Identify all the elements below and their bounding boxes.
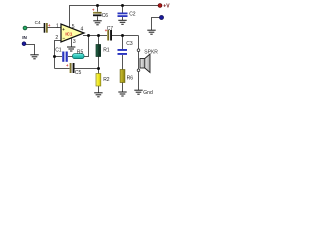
svg-text:C2: C2 bbox=[129, 11, 136, 17]
svg-text:IC1: IC1 bbox=[65, 31, 73, 36]
svg-text:R5: R5 bbox=[77, 49, 84, 55]
svg-text:3: 3 bbox=[73, 39, 76, 45]
svg-text:C1: C1 bbox=[55, 48, 62, 54]
svg-text:R2: R2 bbox=[103, 77, 110, 83]
svg-text:C4: C4 bbox=[35, 20, 41, 25]
svg-text:SPKR: SPKR bbox=[144, 50, 158, 56]
svg-text:1: 1 bbox=[56, 24, 59, 30]
svg-text:+V: +V bbox=[163, 4, 170, 10]
svg-text:4: 4 bbox=[81, 27, 84, 33]
svg-text:C6: C6 bbox=[102, 13, 109, 19]
svg-text:C7: C7 bbox=[107, 26, 114, 32]
svg-text:5: 5 bbox=[72, 24, 75, 30]
svg-text:C5: C5 bbox=[75, 70, 82, 76]
svg-text:R6: R6 bbox=[127, 76, 134, 82]
svg-text:R1: R1 bbox=[103, 48, 110, 54]
svg-text:2: 2 bbox=[55, 35, 58, 41]
svg-text:IN: IN bbox=[22, 35, 27, 40]
svg-text:Gnd: Gnd bbox=[143, 90, 153, 96]
svg-text:C3: C3 bbox=[126, 41, 133, 47]
